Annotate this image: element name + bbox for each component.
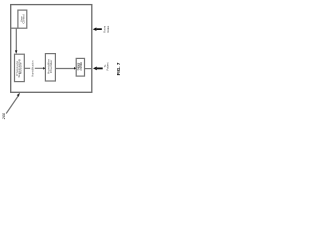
wire: outlet port to enclosure wall xyxy=(85,68,92,70)
outer enclosure box 200 xyxy=(11,5,92,93)
svg-text:200: 200 xyxy=(2,112,6,120)
arrowhead into flow generation module xyxy=(15,50,18,54)
wire: flow module to humidifier xyxy=(24,67,43,69)
svg-text:FIG. 7: FIG. 7 xyxy=(116,62,121,75)
svg-text:Intake: Intake xyxy=(106,25,110,33)
svg-text:Humidification: Humidification xyxy=(30,60,34,77)
label background on wire xyxy=(30,59,35,77)
box: user control module xyxy=(18,10,27,28)
label: flow generation module text xyxy=(15,59,22,77)
box: humidifier chamber xyxy=(45,54,55,81)
label: outlet port text xyxy=(77,62,83,71)
arrowhead into outlet port box xyxy=(74,67,76,70)
svg-text:Conduit: Conduit xyxy=(80,62,83,71)
leader line for reference numeral 200 xyxy=(6,95,18,113)
leader arrowhead touching enclosure xyxy=(17,93,20,97)
arrow: to patient (bottom, pointing left) xyxy=(93,67,103,71)
label: to patient xyxy=(103,62,110,70)
label: room air xyxy=(103,25,110,33)
label: humidifier chamber text xyxy=(47,59,54,74)
svg-text:Control: Control xyxy=(22,14,26,23)
wire: stub from enclosure wall under user control box xyxy=(11,27,18,29)
arrowhead into humidifier box xyxy=(43,67,45,70)
svg-text:Patient: Patient xyxy=(105,62,109,70)
box: flow generation module xyxy=(15,54,25,81)
label: user control module text xyxy=(20,14,26,23)
arrow: room air inlet (top, pointing left) xyxy=(93,27,102,31)
wire: humidifier to outlet port xyxy=(55,68,74,70)
wire: down-connector to flow generation module xyxy=(15,28,17,51)
svg-text:Module: Module xyxy=(19,62,23,74)
box: outlet port xyxy=(76,58,84,76)
svg-text:Chamber: Chamber xyxy=(49,60,53,73)
